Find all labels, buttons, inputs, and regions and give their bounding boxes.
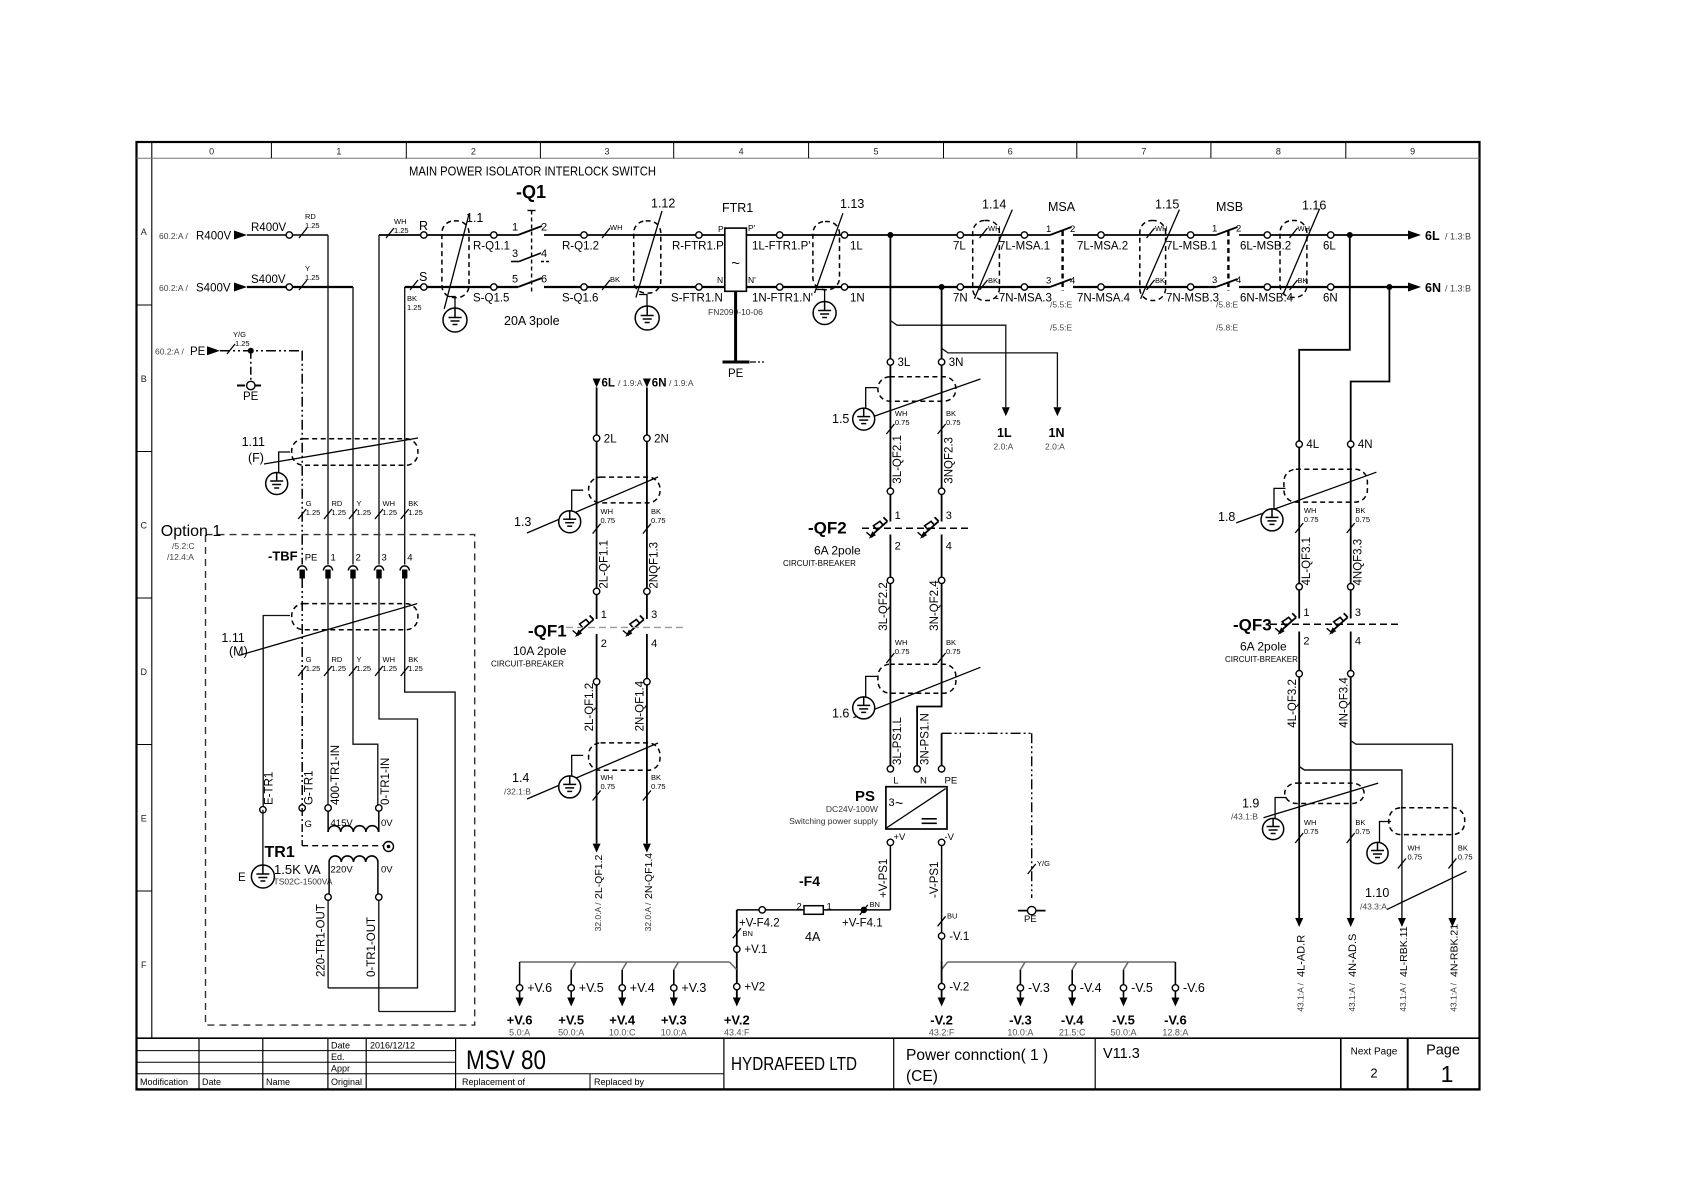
connector 1.15 diagonal <box>1141 210 1180 299</box>
terminal 3L <box>887 359 893 365</box>
svg-text:PE: PE <box>728 368 744 380</box>
svg-text:2016/12/12: 2016/12/12 <box>370 1041 415 1051</box>
svg-text:1: 1 <box>336 147 341 157</box>
bus 6N arrow to 1.3:B <box>1408 283 1421 292</box>
terminal R-FTR1.P <box>696 232 702 238</box>
svg-text:2.0:A: 2.0:A <box>994 442 1014 452</box>
svg-text:P': P' <box>748 223 756 233</box>
svg-text:-V.5: -V.5 <box>1112 1013 1135 1028</box>
svg-text:WH: WH <box>601 773 614 782</box>
svg-text:6N: 6N <box>652 378 667 390</box>
svg-text:1N: 1N <box>850 293 865 305</box>
svg-text:CIRCUIT-BREAKER: CIRCUIT-BREAKER <box>783 559 856 568</box>
svg-text:BK: BK <box>408 499 418 508</box>
svg-text:3L-PS1.L: 3L-PS1.L <box>892 716 904 765</box>
MSA mechanical link <box>1061 231 1063 291</box>
svg-text:PS: PS <box>855 788 875 805</box>
svg-text:S400V: S400V <box>196 283 231 295</box>
svg-text:6L-MSB.2: 6L-MSB.2 <box>1240 241 1291 253</box>
svg-text:3N-PS1.N: 3N-PS1.N <box>919 713 931 765</box>
svg-text:TS02C-1500VA: TS02C-1500VA <box>274 877 333 887</box>
svg-text:21.5:C: 21.5:C <box>1059 1028 1086 1038</box>
svg-text:4L-AD.R: 4L-AD.R <box>1295 935 1307 977</box>
bus S/N y=287 <box>405 286 518 288</box>
svg-text:50.0:A: 50.0:A <box>558 1028 584 1038</box>
svg-text:Date: Date <box>331 1041 350 1051</box>
svg-text:1: 1 <box>331 553 336 564</box>
svg-text:-V.4: -V.4 <box>1080 981 1102 995</box>
svg-text:R-FTR1.P: R-FTR1.P <box>672 241 724 253</box>
svg-text:5.0:A: 5.0:A <box>509 1028 530 1038</box>
terminal 7L-MSA.1 <box>1021 232 1027 238</box>
svg-text:WH: WH <box>383 655 396 664</box>
earth for 1.5 <box>866 388 878 409</box>
svg-text:2N: 2N <box>654 433 669 445</box>
terminal 1L-FTR1.P' <box>777 232 783 238</box>
svg-text:1.1: 1.1 <box>466 211 483 225</box>
svg-text:-V.1: -V.1 <box>949 931 969 943</box>
svg-text:1.25: 1.25 <box>332 508 347 517</box>
svg-text:3NQF2.3: 3NQF2.3 <box>943 437 955 484</box>
svg-text:BN: BN <box>743 929 753 938</box>
svg-text:BU: BU <box>947 912 957 921</box>
svg-text:-V.5: -V.5 <box>1131 981 1153 995</box>
terminal 4L <box>1296 441 1302 447</box>
connector 1.12 capsule <box>634 221 661 293</box>
svg-text:MSB: MSB <box>1216 200 1243 214</box>
wire 2N vertical <box>646 388 648 620</box>
svg-text:1.25: 1.25 <box>408 664 423 673</box>
terminal R-Q1.2 <box>581 232 587 238</box>
svg-text:3L-QF2.2: 3L-QF2.2 <box>878 582 890 631</box>
connector 1.9 diagonal <box>1264 783 1379 818</box>
terminal 4N <box>1348 441 1354 447</box>
svg-text:/ 1.3:B: / 1.3:B <box>1445 232 1471 242</box>
svg-text:7N: 7N <box>953 293 968 305</box>
svg-text:1: 1 <box>1046 224 1051 235</box>
svg-text:R: R <box>419 219 428 233</box>
svg-text:0-TR1-OUT: 0-TR1-OUT <box>366 917 378 977</box>
svg-text:5: 5 <box>512 274 518 286</box>
svg-text:A: A <box>141 227 147 237</box>
svg-text:4N-RBK.21: 4N-RBK.21 <box>1449 924 1461 977</box>
output arrow 4N-AD.S <box>1347 918 1355 927</box>
svg-text:BK: BK <box>1458 844 1468 853</box>
+V rail <box>520 961 730 963</box>
connector 1.3 capsule <box>589 477 660 503</box>
svg-text:4A: 4A <box>805 930 821 944</box>
connector 1.11 (F) diagonal <box>264 438 418 464</box>
svg-text:Modification: Modification <box>140 1077 188 1087</box>
svg-text:0.75: 0.75 <box>1355 827 1370 836</box>
svg-text:S-Q1.5: S-Q1.5 <box>473 293 509 305</box>
svg-text:BK: BK <box>408 655 418 664</box>
svg-text:0.75: 0.75 <box>1304 827 1319 836</box>
branch 4L-RBK.11 <box>1299 767 1402 919</box>
wire BK label after Q1 <box>602 280 610 290</box>
svg-text:WH: WH <box>1298 224 1311 233</box>
earth for 1.13 <box>817 290 825 302</box>
svg-text:BK: BK <box>1355 818 1365 827</box>
connector 1.5 diagonal <box>853 379 980 424</box>
svg-text:5: 5 <box>874 147 879 157</box>
svg-text:1.3: 1.3 <box>514 515 531 529</box>
svg-text:0.75: 0.75 <box>601 782 616 791</box>
svg-text:20A 3pole: 20A 3pole <box>504 314 560 328</box>
svg-text:3N: 3N <box>949 357 964 369</box>
connector 1.13 diagonal <box>815 213 843 293</box>
terminal R at Q1 <box>421 232 427 238</box>
svg-text:43.1:A /: 43.1:A / <box>1347 982 1357 1011</box>
svg-text:3N-QF2.4: 3N-QF2.4 <box>929 580 941 631</box>
terminals QF1 top <box>593 588 599 594</box>
svg-text:1N-FTR1.N': 1N-FTR1.N' <box>752 293 813 305</box>
svg-text:0.75: 0.75 <box>895 418 910 427</box>
terminal -V.2 and arrow <box>938 983 944 989</box>
svg-text:2L-QF1.2: 2L-QF1.2 <box>584 683 596 732</box>
svg-text:-V: -V <box>945 832 955 843</box>
terminal 7N <box>957 284 963 290</box>
svg-text:1.9: 1.9 <box>1242 797 1259 811</box>
connector 1.16 capsule <box>1280 221 1307 298</box>
svg-text:6L: 6L <box>1425 229 1440 243</box>
svg-text:4L: 4L <box>1306 439 1319 451</box>
svg-text:E: E <box>141 813 147 823</box>
svg-text:-QF1: -QF1 <box>528 622 567 641</box>
earth for 1.11 (F) <box>279 452 291 473</box>
svg-text:WH: WH <box>394 217 407 226</box>
svg-text:G-TR1: G-TR1 <box>304 771 316 806</box>
title block <box>137 1050 456 1052</box>
svg-text:6N: 6N <box>1425 281 1441 295</box>
wire -V.1 vertical <box>938 916 946 926</box>
wire Y vertical x=353 <box>352 287 354 565</box>
wire WH label at bus start <box>386 228 394 238</box>
svg-text:Switching power supply: Switching power supply <box>789 816 879 826</box>
svg-text:WH: WH <box>1304 506 1317 515</box>
svg-text:(M): (M) <box>229 645 248 659</box>
svg-text:G: G <box>305 819 312 830</box>
svg-text:-V.2: -V.2 <box>949 982 969 994</box>
svg-text:2: 2 <box>356 553 361 564</box>
svg-text:2: 2 <box>541 222 547 234</box>
wire +V.1 vertical <box>736 910 738 998</box>
terminal 6N <box>1328 284 1334 290</box>
PE ground symbol right <box>1018 910 1046 912</box>
svg-text:G: G <box>306 655 312 664</box>
svg-text:-V.6: -V.6 <box>1183 981 1205 995</box>
svg-text:4: 4 <box>1070 276 1075 287</box>
terminal 7L-MSB.1 <box>1187 232 1193 238</box>
svg-text:L: L <box>893 776 898 787</box>
svg-text:3: 3 <box>946 510 952 522</box>
earth for 1.8 <box>1274 488 1286 509</box>
svg-text:3: 3 <box>382 553 387 564</box>
svg-text:0: 0 <box>209 147 214 157</box>
terminal 1N-FTR1.N' <box>777 284 783 290</box>
svg-text:1: 1 <box>601 609 607 621</box>
wire WH vertical x=379 (220-TR1-OUT return) <box>378 235 380 565</box>
terminal 7N-MSA.4 <box>1098 284 1104 290</box>
svg-text:RD: RD <box>305 212 316 221</box>
terminal 1L <box>841 232 847 238</box>
output arrow 4N-RBK.21 <box>1448 918 1456 927</box>
svg-text:3L-QF2.1: 3L-QF2.1 <box>892 435 904 484</box>
svg-text:2.0:A: 2.0:A <box>1045 442 1065 452</box>
svg-text:PE: PE <box>945 776 958 787</box>
svg-text:+V.4: +V.4 <box>630 981 655 995</box>
svg-text:S400V: S400V <box>251 274 286 286</box>
svg-text:Appr: Appr <box>331 1064 350 1074</box>
svg-text:10.0:C: 10.0:C <box>609 1028 636 1038</box>
svg-text:+V.2: +V.2 <box>724 1013 750 1028</box>
svg-text:60.2:A /: 60.2:A / <box>155 347 184 357</box>
svg-text:2: 2 <box>471 147 476 157</box>
terminal +V2 and arrow <box>734 983 740 989</box>
svg-text:WH: WH <box>1408 844 1421 853</box>
svg-text:1.4: 1.4 <box>512 771 529 785</box>
svg-text:3: 3 <box>512 248 518 260</box>
bus R/L top y=235 <box>379 234 518 236</box>
svg-text:1.25: 1.25 <box>305 273 320 282</box>
svg-text:43.1:A /: 43.1:A / <box>1295 982 1305 1011</box>
svg-text:4NQF3.3: 4NQF3.3 <box>1352 539 1364 586</box>
svg-text:2: 2 <box>1370 1066 1377 1081</box>
svg-text:2: 2 <box>797 902 802 913</box>
svg-text:/5.8:E: /5.8:E <box>1216 300 1239 310</box>
svg-text:R-Q1.2: R-Q1.2 <box>562 241 599 253</box>
terminal 2N <box>644 435 650 441</box>
svg-text:6: 6 <box>1008 147 1013 157</box>
svg-text:Ed.: Ed. <box>331 1052 345 1062</box>
svg-text:0.75: 0.75 <box>1304 515 1319 524</box>
svg-text:-TBF: -TBF <box>268 549 298 564</box>
svg-text:PE: PE <box>190 346 206 358</box>
PE rail symbol <box>237 385 264 387</box>
svg-text:0.75: 0.75 <box>1458 853 1473 862</box>
svg-text:+V-F4.1: +V-F4.1 <box>842 918 883 930</box>
svg-text:-V.6: -V.6 <box>1164 1013 1187 1028</box>
Q1 mechanical link dashed <box>528 210 536 212</box>
svg-text:43.2:F: 43.2:F <box>929 1028 955 1038</box>
svg-text:60.2:A /: 60.2:A / <box>159 283 188 293</box>
svg-text:1L-FTR1.P': 1L-FTR1.P' <box>752 241 810 253</box>
svg-text:1.25: 1.25 <box>408 508 423 517</box>
svg-text:WH: WH <box>601 507 614 516</box>
svg-text:V11.3: V11.3 <box>1103 1046 1140 1062</box>
isolator Q1 pole 3-4 interlock <box>511 261 519 263</box>
connector 1.1 diagonal <box>444 214 469 309</box>
svg-text:0V: 0V <box>381 818 393 829</box>
svg-text:10.0:A: 10.0:A <box>1007 1028 1033 1038</box>
svg-text:/5.5:E: /5.5:E <box>1050 323 1073 333</box>
MSB mechanical link <box>1227 231 1229 291</box>
svg-text:E: E <box>238 872 246 884</box>
connector 1.3 diagonal <box>527 477 658 533</box>
wire 4L drop <box>1299 235 1350 619</box>
svg-text:Next Page: Next Page <box>1351 1047 1398 1058</box>
svg-text:0.75: 0.75 <box>651 782 666 791</box>
svg-text:4: 4 <box>739 147 744 157</box>
svg-text:9: 9 <box>1410 147 1415 157</box>
wire 3L drop <box>889 235 891 522</box>
svg-text:0.75: 0.75 <box>1408 853 1423 862</box>
svg-text:~: ~ <box>731 255 740 272</box>
svg-text:Y: Y <box>305 264 310 273</box>
svg-text:1.25: 1.25 <box>357 664 372 673</box>
svg-text:0.75: 0.75 <box>651 516 666 525</box>
wire WH/BK labels 1.14 <box>980 228 988 238</box>
-V rail <box>948 961 1176 963</box>
svg-text:1.5: 1.5 <box>832 412 849 426</box>
wire 4N drop <box>1351 287 1390 619</box>
terminals QF1 bottom <box>593 679 599 685</box>
svg-text:2L-QF1.2: 2L-QF1.2 <box>593 854 605 899</box>
terminals QF3 bottom <box>1296 671 1302 677</box>
terminal +V.1 <box>734 946 740 952</box>
svg-text:2N-QF1.4: 2N-QF1.4 <box>643 853 655 899</box>
svg-text:+V.5: +V.5 <box>579 981 604 995</box>
svg-text:+V: +V <box>894 832 907 843</box>
earth E-TR1 <box>251 865 274 888</box>
wire WH/BK labels 1.15 <box>1147 228 1155 238</box>
terminal 7L <box>957 232 963 238</box>
svg-text:3L: 3L <box>898 357 911 369</box>
svg-text:-QF3: -QF3 <box>1233 616 1272 635</box>
svg-text:1.25: 1.25 <box>332 664 347 673</box>
svg-text:/43.1:B: /43.1:B <box>1231 812 1258 822</box>
svg-text:WH: WH <box>1155 224 1168 233</box>
svg-text:BK: BK <box>946 409 956 418</box>
node 4L on L bus <box>1347 232 1353 238</box>
svg-text:P: P <box>718 224 724 234</box>
svg-text:1.15: 1.15 <box>1155 198 1179 212</box>
TR1 screen dashed <box>301 808 303 846</box>
svg-text:N: N <box>920 776 927 787</box>
svg-text:1.25: 1.25 <box>235 339 250 348</box>
svg-text:PE: PE <box>305 553 318 564</box>
svg-text:3: 3 <box>605 147 610 157</box>
svg-text:WH: WH <box>895 409 908 418</box>
wire gauge labels above TBF <box>298 509 306 519</box>
svg-text:1.6: 1.6 <box>832 707 849 721</box>
-V taps terminals and arrows <box>1017 985 1023 991</box>
branch 1N from 3N <box>942 348 1058 407</box>
svg-text:32.0:A /: 32.0:A / <box>593 902 603 931</box>
svg-text:1.25: 1.25 <box>383 664 398 673</box>
svg-text:7: 7 <box>1141 147 1146 157</box>
svg-text:BK: BK <box>1155 276 1165 285</box>
svg-text:1.25: 1.25 <box>306 664 321 673</box>
output arrow 4L-RBK.11 <box>1398 918 1406 927</box>
earth for 1.12 <box>639 295 647 307</box>
svg-text:6L: 6L <box>1323 241 1336 253</box>
bus 6L arrow to 1.3:B <box>1408 231 1421 240</box>
svg-text:CIRCUIT-BREAKER: CIRCUIT-BREAKER <box>1225 655 1298 664</box>
svg-text:/ 1.9:A: / 1.9:A <box>669 378 694 388</box>
node 3L on L bus <box>887 232 893 238</box>
node 4N on N bus <box>1386 284 1392 290</box>
terminal 6L <box>1328 232 1334 238</box>
svg-text:6A 2pole: 6A 2pole <box>814 544 861 558</box>
TR1 secondary terminals <box>325 894 331 900</box>
svg-text:0-TR1-IN: 0-TR1-IN <box>380 758 392 805</box>
svg-text:CIRCUIT-BREAKER: CIRCUIT-BREAKER <box>491 660 564 669</box>
connector 1.11 (F) capsule <box>292 439 418 466</box>
svg-text:1.10: 1.10 <box>1365 886 1389 900</box>
svg-text:-V.3: -V.3 <box>1009 1013 1032 1028</box>
svg-text:1N: 1N <box>1049 426 1065 440</box>
connector 1.8 capsule <box>1284 469 1368 502</box>
svg-text:BN: BN <box>870 900 880 909</box>
output arrow 2L-QF1.2 <box>593 844 601 853</box>
connector 1.14 capsule <box>973 221 1000 301</box>
Option 1 dashed enclosure <box>206 535 475 1026</box>
svg-text:MSV 80: MSV 80 <box>466 1045 546 1075</box>
svg-text:6: 6 <box>541 274 547 286</box>
wire 2L vertical <box>596 388 598 620</box>
svg-text:400-TR1-IN: 400-TR1-IN <box>330 745 342 805</box>
wire PE dash-dot <box>220 350 302 352</box>
svg-text:D: D <box>141 667 148 677</box>
connector 1.8 diagonal <box>1236 472 1376 523</box>
svg-text:Page: Page <box>1426 1043 1460 1059</box>
svg-text:4N-QF3.4: 4N-QF3.4 <box>1338 677 1350 728</box>
svg-text:43.4:F: 43.4:F <box>724 1028 750 1038</box>
svg-text:1.25: 1.25 <box>383 508 398 517</box>
svg-text:R400V: R400V <box>251 222 286 234</box>
connector 1.16 diagonal <box>1283 209 1319 295</box>
svg-text:/ 1.3:B: / 1.3:B <box>1445 284 1471 294</box>
connector 1.4 capsule <box>589 743 660 770</box>
svg-text:60.2:A /: 60.2:A / <box>159 231 188 241</box>
connector 1.12 diagonal <box>636 211 662 298</box>
svg-text:+V.3: +V.3 <box>681 981 706 995</box>
svg-text:+V-F4.2: +V-F4.2 <box>739 918 780 930</box>
connector 1.5 capsule <box>878 377 956 402</box>
svg-text:3: 3 <box>889 797 895 809</box>
svg-text:6L: 6L <box>602 378 615 390</box>
svg-text:+V.6: +V.6 <box>527 981 552 995</box>
terminal 1N <box>841 284 847 290</box>
terminals QF2 bottom <box>887 577 893 583</box>
svg-text:R400V: R400V <box>196 231 231 243</box>
svg-text:WH: WH <box>895 638 908 647</box>
branch 1L from 3L <box>890 321 1005 408</box>
svg-text:1L: 1L <box>997 426 1012 440</box>
svg-text:PE: PE <box>243 391 259 403</box>
svg-text:G: G <box>306 499 312 508</box>
earth for 1.9 <box>1275 798 1287 819</box>
breaker QF3 poles <box>1275 613 1296 633</box>
svg-text:1.13: 1.13 <box>840 197 864 211</box>
svg-text:12.8:A: 12.8:A <box>1162 1028 1188 1038</box>
svg-text:2: 2 <box>1236 224 1241 235</box>
svg-text:-V.2: -V.2 <box>930 1013 953 1028</box>
svg-text:BK: BK <box>407 294 417 303</box>
svg-text:-QF2: -QF2 <box>808 519 847 538</box>
svg-text:Y: Y <box>357 655 362 664</box>
svg-text:4: 4 <box>946 541 952 553</box>
power supply PS <box>887 766 893 772</box>
svg-text:N: N <box>717 275 723 285</box>
svg-text:BK: BK <box>610 275 620 284</box>
svg-text:~: ~ <box>895 795 903 811</box>
svg-text:7L-MSA.1: 7L-MSA.1 <box>999 241 1050 253</box>
wire G/PE vertical dash-dot x=302 <box>301 351 303 565</box>
svg-text:+V.4: +V.4 <box>609 1013 636 1028</box>
svg-text:4L-QF3.1: 4L-QF3.1 <box>1301 537 1313 586</box>
